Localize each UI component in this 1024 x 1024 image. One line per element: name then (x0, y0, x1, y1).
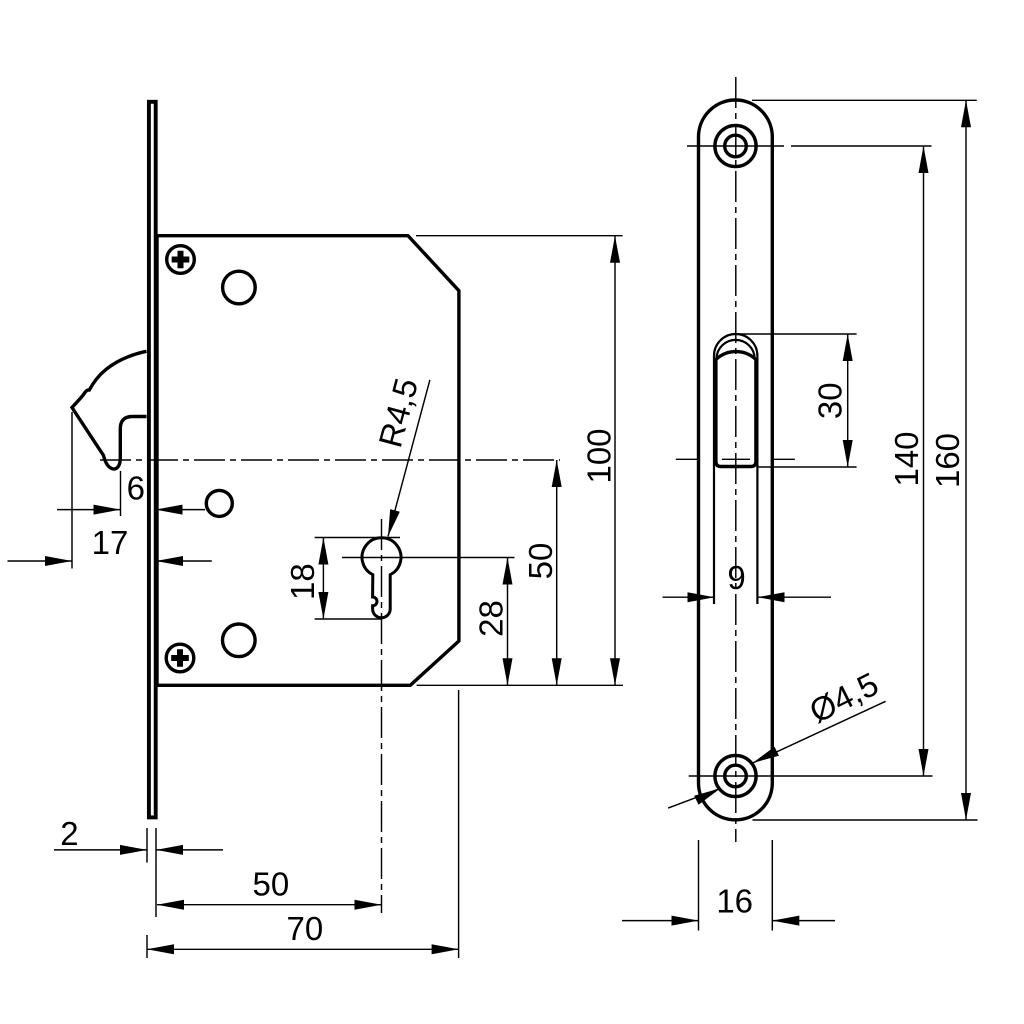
plate vertical centerline (735, 77, 737, 842)
svg-text:70: 70 (287, 910, 324, 947)
dim 18 (keyhole) (315, 538, 400, 620)
svg-text:30: 30 (812, 382, 849, 419)
svg-text:6: 6 (127, 469, 145, 506)
slot outline (714, 334, 757, 604)
svg-text:18: 18 (284, 563, 321, 600)
svg-text:50: 50 (522, 543, 559, 580)
dim 50 right (556, 460, 558, 685)
svg-text:9: 9 (727, 559, 745, 596)
dim 30 (847, 334, 849, 467)
keyhole horizontal center tick (342, 557, 515, 559)
svg-text:50: 50 (253, 866, 290, 903)
dim 160 (965, 100, 967, 820)
hole (bottom) (223, 624, 256, 657)
bottom screw centerline (689, 775, 933, 777)
case bottom extension line (417, 684, 623, 686)
top screw centerline (687, 145, 932, 147)
dim 50 bottom (155, 863, 157, 917)
svg-text:17: 17 (92, 524, 129, 561)
dia 4,5 leader (668, 701, 886, 808)
hole (small, middle) (206, 490, 232, 516)
slot top extension line (738, 333, 857, 335)
hook bolt (72, 351, 147, 469)
bottom screw hole (715, 755, 756, 796)
svg-text:28: 28 (473, 600, 510, 637)
svg-text:100: 100 (581, 428, 618, 483)
dim 28 (507, 558, 509, 686)
svg-text:160: 160 (929, 433, 966, 488)
slot inner arc (717, 340, 755, 359)
dim 16 (plate width) (699, 840, 773, 931)
lock case outline (157, 236, 459, 686)
dim 6 (120, 471, 122, 516)
hole (top) (223, 271, 256, 304)
svg-text:140: 140 (888, 431, 925, 486)
plate bottom extension line (753, 819, 978, 821)
dim 70 bottom (147, 690, 459, 958)
dim 100 (614, 236, 616, 686)
keyhole (362, 538, 401, 618)
striking plate outline (stadium) (699, 100, 773, 820)
case top extension line (416, 235, 623, 237)
horizontal centerline (hook pivot axis) (100, 459, 560, 461)
plate top extension line (752, 99, 977, 101)
dim 140 (923, 146, 925, 776)
dim 2 (faceplate thickness) (147, 828, 156, 863)
dim 17 (71, 412, 73, 569)
dim 9 (slot width) (663, 596, 832, 598)
pivot horizontal centerline (right view) (676, 458, 795, 460)
faceplate edge view (left view) (149, 102, 156, 818)
keyhole vertical centerline (381, 519, 383, 913)
svg-text:R4,5: R4,5 (371, 374, 425, 451)
screw (bottom, cross head) (166, 644, 194, 672)
svg-text:2: 2 (60, 815, 78, 852)
screw (top, cross head) (167, 246, 195, 274)
hook tip (front view) (716, 352, 756, 467)
top screw hole (715, 125, 756, 166)
svg-text:16: 16 (716, 883, 753, 920)
slot bottom extension line (758, 466, 857, 468)
R4,5 leader (388, 380, 430, 537)
